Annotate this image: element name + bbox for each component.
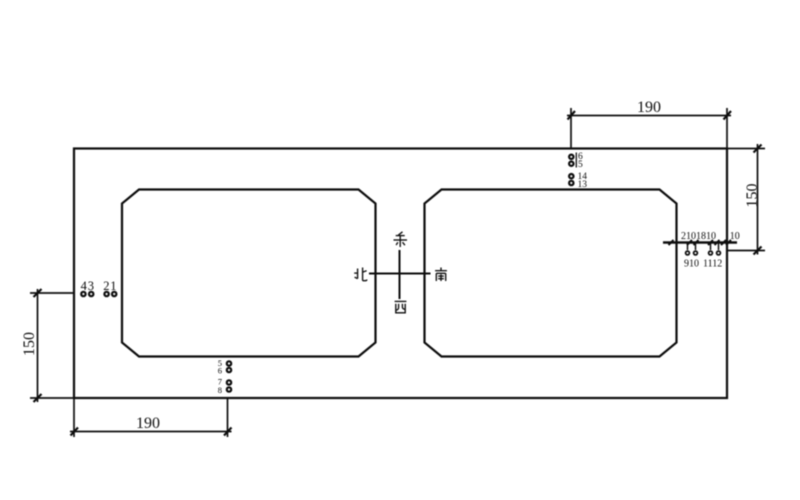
dimension 190 top: right extension line: [726, 108, 728, 148]
svg-text:13: 13: [578, 180, 588, 190]
dimension 190 top: dim line: [567, 115, 731, 117]
svg-text:190: 190: [637, 99, 661, 116]
svg-text:21: 21: [103, 279, 117, 293]
survey point 12: [717, 251, 721, 255]
dimension 190 top: left tick: [568, 111, 576, 120]
survey leaders right: [688, 244, 719, 251]
dimension 150 right: top extension line: [727, 148, 765, 150]
dimension 190 bottom: right tick: [224, 428, 232, 436]
dimension 190 top: left extension line: [570, 108, 572, 148]
svg-text:5: 5: [578, 160, 583, 170]
svg-text:150: 150: [21, 332, 38, 356]
survey point 11: [709, 251, 713, 255]
survey line ticks: [669, 240, 732, 245]
survey point 1: [112, 292, 116, 296]
svg-text:190: 190: [136, 415, 160, 432]
dimension 150 left: bottom extension line: [30, 397, 74, 399]
survey point 14: [569, 174, 573, 178]
svg-text:8: 8: [218, 385, 222, 395]
survey point 2: [104, 292, 108, 296]
compass label north: [354, 268, 367, 281]
dimension 150 left: top extension line: [30, 292, 74, 294]
dimension 150 left: top tick: [34, 289, 42, 297]
survey point 4: [81, 292, 85, 296]
svg-text:43: 43: [81, 279, 95, 293]
survey line right web: [663, 241, 737, 243]
survey point 10r: [694, 251, 698, 255]
separator bar top cluster: [575, 153, 577, 168]
dimension 150 left: bottom tick: [34, 394, 42, 402]
compass label west: [395, 301, 407, 312]
compass label east: [394, 232, 408, 247]
svg-text:6: 6: [218, 366, 222, 376]
survey point 3: [89, 292, 93, 296]
survey point 7b: [227, 380, 231, 384]
dimension 150 right: dim line: [757, 144, 759, 255]
survey point 8b: [227, 387, 231, 391]
dimension 190 bottom: left tick: [71, 428, 79, 436]
outer deck outline: [74, 149, 727, 399]
survey point 5b: [227, 361, 231, 365]
dimension 190 bottom: right extension line: [227, 398, 229, 437]
survey point 9: [686, 251, 690, 255]
dimension 190 bottom: dim line: [70, 431, 232, 433]
survey point 6t: [569, 155, 573, 159]
compass cross: [369, 250, 431, 299]
compass label south: [435, 268, 447, 282]
dimension 150 right: top tick: [754, 145, 762, 153]
survey point 5t: [569, 162, 573, 166]
svg-text:10: 10: [730, 231, 740, 242]
survey point 13: [569, 181, 573, 185]
svg-text:2101810: 2101810: [681, 231, 716, 242]
dimension 150 left: dim line: [37, 289, 39, 402]
svg-text:1112: 1112: [703, 258, 722, 269]
svg-text:910: 910: [684, 258, 699, 269]
left box cell outline: [122, 190, 376, 357]
dimension 150 right: bottom tick: [754, 247, 762, 255]
dimension 190 bottom: left extension line: [73, 398, 75, 437]
survey point 6b: [227, 368, 231, 372]
dimension 150 right: bottom extension line: [727, 250, 765, 252]
right box cell outline: [425, 190, 677, 357]
svg-text:150: 150: [744, 184, 761, 208]
dimension 190 top: right tick: [724, 111, 732, 120]
